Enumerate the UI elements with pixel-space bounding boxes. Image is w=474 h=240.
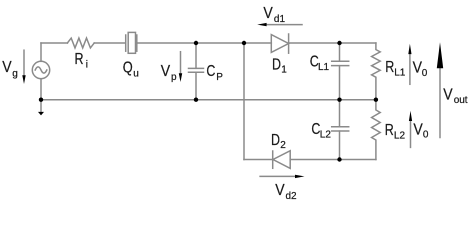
arrow Vg shaft bbox=[23, 50, 25, 76]
wire between Ri and Qu bbox=[94, 42, 125, 44]
arrow V0 upper shaft bbox=[409, 53, 411, 84]
arrow Vp shaft bbox=[180, 52, 182, 74]
svg-text:R: R bbox=[385, 59, 394, 77]
wire middle rail bbox=[41, 99, 376, 101]
svg-text:L2: L2 bbox=[394, 131, 406, 142]
node RL1/RL2 mid bbox=[374, 98, 378, 102]
arrowhead V0 upper bbox=[408, 44, 411, 54]
svg-text:0: 0 bbox=[423, 130, 429, 141]
resistor Ri bbox=[67, 38, 94, 48]
ground lead bbox=[40, 100, 42, 112]
node D2 branch top bbox=[242, 41, 246, 45]
arrowhead Vd2 bbox=[295, 175, 305, 178]
svg-text:d2: d2 bbox=[286, 191, 298, 202]
crystal Qu bbox=[125, 35, 127, 51]
node CP top bbox=[194, 41, 198, 45]
svg-text:u: u bbox=[133, 68, 139, 79]
source Vg circle bbox=[32, 61, 49, 78]
svg-text:0: 0 bbox=[422, 68, 428, 79]
wire top rail left segment bbox=[41, 42, 67, 44]
svg-text:g: g bbox=[12, 68, 18, 79]
svg-text:L1: L1 bbox=[318, 62, 330, 73]
arrowhead Vg bbox=[22, 75, 25, 84]
arrow Vout shaft bbox=[439, 66, 441, 138]
svg-text:L1: L1 bbox=[394, 68, 406, 79]
node CP bottom bbox=[194, 98, 198, 102]
svg-text:P: P bbox=[216, 72, 223, 83]
capacitor CL1 bbox=[339, 43, 341, 61]
svg-text:V: V bbox=[443, 85, 452, 103]
source vertical lead bottom bbox=[40, 79, 42, 100]
svg-text:d1: d1 bbox=[274, 14, 286, 25]
source sine bbox=[35, 67, 47, 73]
wire Qu to D1 anode bbox=[138, 42, 272, 44]
arrow Vd2 shaft bbox=[260, 175, 296, 177]
diode D2 bbox=[272, 151, 274, 168]
capacitor CL2 bbox=[339, 100, 341, 127]
arrowhead Vp bbox=[179, 73, 182, 82]
svg-text:V: V bbox=[263, 4, 272, 22]
source vertical lead top bbox=[40, 43, 42, 61]
ground bbox=[38, 112, 44, 116]
svg-text:V: V bbox=[413, 120, 422, 138]
arrowhead V0 lower bbox=[409, 111, 412, 121]
svg-text:out: out bbox=[454, 95, 468, 106]
svg-text:V: V bbox=[2, 58, 11, 76]
svg-text:p: p bbox=[171, 72, 177, 83]
svg-text:2: 2 bbox=[280, 140, 286, 151]
svg-text:V: V bbox=[413, 59, 422, 77]
svg-text:V: V bbox=[161, 62, 170, 80]
svg-text:1: 1 bbox=[281, 65, 287, 76]
node CL1/CL2 mid bbox=[337, 98, 341, 102]
diode D1 bbox=[271, 35, 288, 53]
svg-text:i: i bbox=[86, 60, 88, 71]
arrowhead Vd1 bbox=[257, 23, 266, 26]
resistor RL1 bbox=[372, 43, 381, 100]
arrow V0 lower shaft bbox=[410, 120, 412, 147]
resistor RL2 bbox=[372, 100, 381, 160]
wire D2 to RL2 corner bbox=[290, 159, 376, 161]
svg-text:D: D bbox=[271, 131, 280, 149]
node CL2 bottom bbox=[337, 157, 341, 161]
node CL1 top bbox=[337, 41, 341, 45]
node source bottom bbox=[39, 98, 43, 102]
wire D2 branch vertical bbox=[243, 43, 245, 160]
capacitor CP bbox=[195, 43, 197, 68]
wire D2 branch bottom left bbox=[244, 159, 273, 161]
arrowhead Vout bbox=[437, 42, 443, 68]
svg-text:V: V bbox=[275, 181, 284, 199]
svg-text:Q: Q bbox=[123, 59, 133, 77]
svg-text:L2: L2 bbox=[320, 130, 332, 141]
arrow Vd1 shaft bbox=[266, 24, 303, 26]
svg-text:D: D bbox=[272, 56, 281, 74]
svg-text:C: C bbox=[206, 63, 215, 81]
wire D1 cathode to RL1 corner bbox=[289, 42, 376, 44]
svg-text:R: R bbox=[75, 51, 84, 69]
svg-text:R: R bbox=[385, 122, 394, 140]
